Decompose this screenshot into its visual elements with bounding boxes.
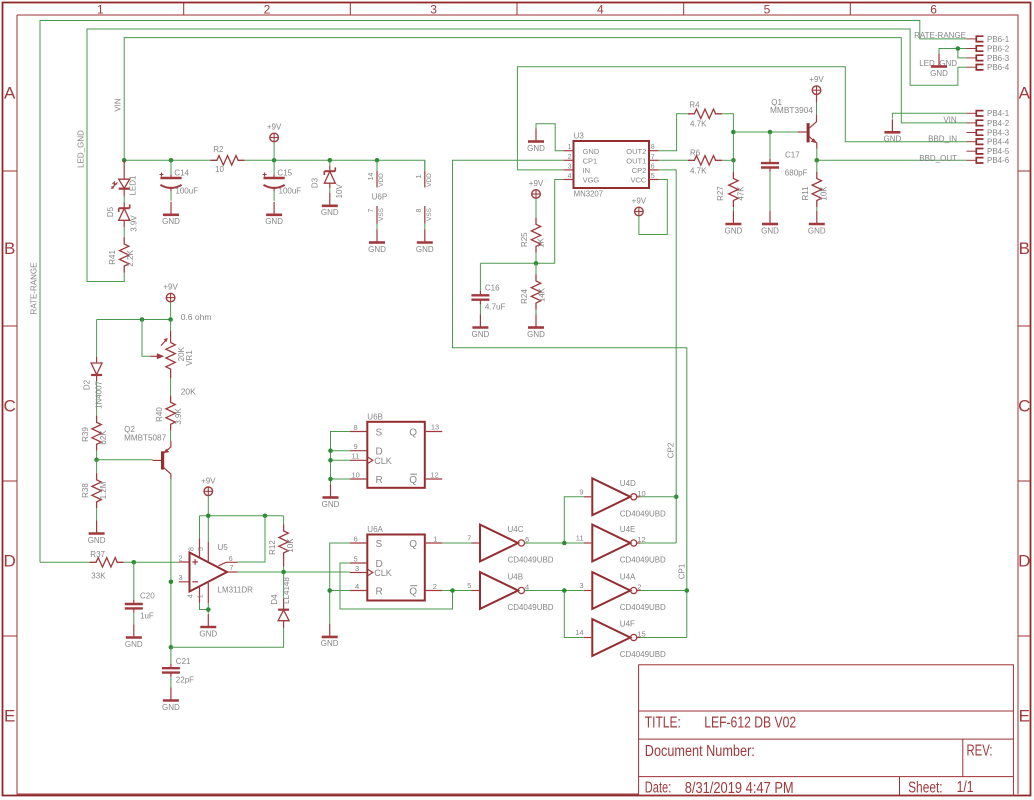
- junction C20 node: [132, 560, 137, 565]
- connector pin PB6-2: [967, 44, 1010, 53]
- svg-text:PB6-2: PB6-2: [987, 44, 1010, 53]
- svg-text:3: 3: [430, 3, 437, 17]
- svg-text:RATE-RANGE: RATE-RANGE: [914, 31, 966, 40]
- svg-text:PB6-1: PB6-1: [987, 35, 1010, 44]
- svg-text:LL4148: LL4148: [282, 577, 291, 604]
- svg-text:LM311DR: LM311DR: [218, 586, 254, 595]
- svg-text:VDD: VDD: [378, 173, 385, 187]
- svg-text:4: 4: [597, 3, 604, 17]
- svg-text:R2: R2: [213, 145, 224, 154]
- svg-text:S: S: [376, 427, 383, 438]
- diode D2 1N4007: [83, 353, 104, 416]
- inverter U4D CD4049UBD: [579, 478, 666, 518]
- zener diode D5 3.9V: [106, 189, 138, 232]
- connector pin PB4-5: [967, 147, 1010, 156]
- svg-text:4.7uF: 4.7uF: [485, 303, 506, 312]
- IC U6A flip-flop: [350, 525, 442, 600]
- svg-text:2: 2: [433, 582, 437, 591]
- svg-text:R24: R24: [520, 289, 529, 304]
- capacitor C14 100uF: [160, 160, 199, 201]
- wire U6B inputs to gnd: [331, 432, 350, 485]
- svg-text:R41: R41: [108, 250, 117, 265]
- ground: [884, 119, 902, 143]
- +9V supply: [809, 75, 824, 94]
- wire BBD_OUT: [817, 159, 967, 161]
- svg-text:Document Number:: Document Number:: [645, 743, 755, 760]
- svg-text:6: 6: [651, 163, 655, 170]
- ground: [725, 211, 743, 235]
- junction pin6 node: [263, 514, 268, 519]
- transistor Q1 MMBT3904: [770, 95, 817, 149]
- wire U4B out to U4A/U4F in: [524, 591, 583, 638]
- svg-text:TITLE:: TITLE:: [645, 715, 681, 732]
- ground: [321, 193, 339, 217]
- svg-text:CD4049UBD: CD4049UBD: [620, 650, 666, 659]
- svg-text:MMBT5087: MMBT5087: [124, 434, 167, 443]
- svg-text:1.2M: 1.2M: [99, 481, 108, 499]
- +9V supply: [267, 123, 282, 142]
- svg-text:REV:: REV:: [967, 742, 993, 759]
- resistor R12 10K: [268, 516, 295, 572]
- svg-text:D4: D4: [270, 594, 279, 605]
- svg-text:C15: C15: [277, 168, 292, 177]
- svg-text:4: 4: [355, 582, 359, 591]
- capacitor C17 680pF: [761, 132, 808, 211]
- svg-text:4: 4: [188, 594, 195, 598]
- wire U4C out to U4D/U4E in: [524, 497, 583, 543]
- svg-text:7: 7: [651, 154, 655, 161]
- IC U3 MN3207: [564, 131, 659, 198]
- wire U3 VCC: [639, 180, 667, 235]
- svg-text:1: 1: [197, 594, 204, 598]
- svg-text:R: R: [376, 475, 383, 486]
- svg-text:D5: D5: [106, 206, 115, 217]
- svg-text:BBD_IN: BBD_IN: [928, 134, 957, 143]
- ground: [527, 129, 545, 153]
- svg-text:VCC: VCC: [630, 176, 646, 185]
- junction U6B: [328, 458, 333, 463]
- svg-text:U4A: U4A: [620, 573, 636, 582]
- resistor R25 1K: [520, 179, 546, 263]
- svg-text:8: 8: [189, 547, 196, 551]
- wire Q1 emitter: [816, 149, 818, 161]
- svg-text:LED_GND: LED_GND: [77, 130, 86, 168]
- svg-text:6: 6: [930, 3, 937, 17]
- svg-text:Date:: Date:: [645, 779, 672, 796]
- junction rail/VIN: [122, 158, 127, 163]
- svg-text:100uF: 100uF: [279, 187, 302, 196]
- svg-text:CP2: CP2: [666, 442, 675, 458]
- svg-text:B: B: [4, 239, 15, 258]
- inverter U4C CD4049UBD: [467, 525, 554, 565]
- wire CP2: [659, 170, 677, 543]
- wire BBD_IN: [517, 67, 966, 170]
- resistor R6 4.7K: [688, 149, 722, 176]
- svg-text:C21: C21: [176, 657, 191, 666]
- svg-text:MN3207: MN3207: [574, 189, 604, 199]
- svg-text:U4C: U4C: [508, 525, 524, 534]
- svg-text:12: 12: [430, 470, 438, 479]
- junction rail/D3: [328, 158, 333, 163]
- svg-text:7: 7: [368, 208, 375, 212]
- svg-text:R38: R38: [81, 483, 90, 498]
- svg-text:Q2: Q2: [124, 425, 135, 434]
- ground: [416, 230, 434, 254]
- connector pin PB6-3: [967, 54, 1010, 63]
- wire VGG divider: [480, 180, 563, 264]
- svg-text:5: 5: [354, 554, 358, 563]
- ground: [808, 211, 826, 235]
- svg-text:R: R: [376, 586, 383, 597]
- svg-text:PB4-5: PB4-5: [987, 147, 1010, 156]
- svg-text:D2: D2: [83, 379, 92, 390]
- svg-text:R6: R6: [690, 149, 701, 158]
- svg-text:62K: 62K: [99, 430, 108, 445]
- junction R6 node: [731, 158, 736, 163]
- svg-text:U4F: U4F: [620, 620, 635, 629]
- svg-text:1K: 1K: [537, 238, 546, 248]
- junction Qbar node: [450, 588, 455, 593]
- svg-text:8: 8: [354, 423, 358, 432]
- svg-text:10V: 10V: [335, 184, 344, 199]
- IC U6P power pins: [368, 160, 433, 229]
- junction VGG: [534, 261, 539, 266]
- svg-text:R39: R39: [81, 427, 90, 442]
- junction CP2/U4D: [674, 495, 679, 500]
- LED LED1: [111, 160, 138, 195]
- inverter U4E CD4049UBD: [576, 525, 666, 565]
- svg-text:6: 6: [229, 556, 233, 563]
- junction CP1/U4A: [685, 588, 690, 593]
- svg-text:1: 1: [568, 144, 572, 151]
- svg-text:20K: 20K: [181, 387, 196, 397]
- svg-text:CD4049UBD: CD4049UBD: [508, 556, 554, 565]
- svg-text:A: A: [1019, 84, 1031, 103]
- svg-text:5: 5: [198, 547, 205, 551]
- svg-text:1: 1: [97, 3, 104, 17]
- wire LM311 V+ / balance: [200, 496, 284, 542]
- svg-text:PB6-3: PB6-3: [987, 54, 1010, 63]
- svg-text:CD4049UBD: CD4049UBD: [620, 556, 666, 565]
- ground: [88, 521, 106, 545]
- svg-text:B: B: [1019, 239, 1030, 258]
- svg-text:R25: R25: [520, 232, 529, 247]
- svg-text:VSS: VSS: [378, 207, 385, 221]
- svg-text:PB4-1: PB4-1: [987, 109, 1010, 118]
- svg-text:VR1: VR1: [185, 350, 194, 366]
- svg-text:5: 5: [467, 581, 471, 590]
- junction inv node: [562, 588, 567, 593]
- svg-text:U4B: U4B: [508, 573, 524, 582]
- svg-text:U6B: U6B: [367, 412, 383, 421]
- wire +9V rail: [124, 160, 425, 171]
- svg-text:2: 2: [568, 154, 572, 161]
- ground: [199, 614, 217, 638]
- svg-text:4: 4: [568, 173, 572, 180]
- wire U6A D loop: [340, 563, 453, 609]
- svg-text:U4D: U4D: [620, 479, 636, 488]
- wire LM311 out to CLK: [238, 571, 350, 573]
- svg-text:S: S: [376, 539, 383, 550]
- svg-text:VIN: VIN: [943, 115, 957, 124]
- svg-text:2.2K: 2.2K: [126, 250, 135, 267]
- ground: [162, 202, 180, 226]
- svg-text:R12: R12: [268, 540, 277, 555]
- svg-text:CD4049UBD: CD4049UBD: [620, 603, 666, 612]
- svg-text:D: D: [4, 552, 16, 571]
- resistor R41 2.2K: [108, 227, 135, 277]
- wire U6A Qbar out: [442, 590, 471, 592]
- svg-text:33K: 33K: [91, 572, 106, 581]
- wire VIN: [124, 38, 966, 161]
- svg-text:C17: C17: [785, 150, 800, 159]
- junction R12/D4 node: [281, 570, 286, 575]
- svg-text:U6P: U6P: [372, 192, 388, 201]
- inverter U4F CD4049UBD: [575, 619, 666, 659]
- resistor R38 1.2M: [81, 460, 108, 521]
- wire +9V to rail: [273, 142, 275, 161]
- svg-text:2: 2: [179, 555, 183, 562]
- svg-text:PB4-4: PB4-4: [987, 138, 1010, 147]
- svg-text:3: 3: [579, 581, 583, 590]
- svg-text:CD4049UBD: CD4049UBD: [620, 509, 666, 518]
- svg-text:3.9K: 3.9K: [174, 408, 183, 425]
- junction pin3 node: [169, 580, 174, 585]
- wire PB4-1 to GND: [892, 113, 966, 118]
- +9V supply: [632, 197, 647, 216]
- svg-text:7: 7: [230, 565, 234, 572]
- svg-text:U5: U5: [218, 543, 229, 552]
- junction U6A R: [327, 588, 332, 593]
- svg-text:9: 9: [354, 442, 358, 451]
- wire OUT2 to R4: [659, 114, 688, 151]
- +9V supply: [201, 476, 216, 495]
- junction rail/C14: [169, 158, 174, 163]
- junction wiper node: [140, 317, 145, 322]
- connector pin PB4-4: [967, 138, 1010, 147]
- capacitor C20 1uF: [125, 562, 155, 624]
- frame row ticks right: [1018, 171, 1031, 636]
- svg-text:9: 9: [579, 488, 583, 497]
- svg-text:U4E: U4E: [620, 525, 636, 534]
- junction gnd node: [206, 607, 211, 612]
- svg-text:PB6-4: PB6-4: [987, 63, 1010, 72]
- wire OUT1 to R6: [659, 159, 688, 161]
- svg-text:VGG: VGG: [583, 176, 600, 185]
- ground: [125, 625, 143, 649]
- svg-text:11: 11: [352, 452, 360, 461]
- wire U6A S-R tie: [330, 543, 350, 624]
- svg-text:E: E: [1019, 707, 1030, 726]
- svg-text:PB4-3: PB4-3: [987, 128, 1010, 137]
- svg-text:CP2: CP2: [632, 166, 647, 175]
- svg-text:4.7K: 4.7K: [690, 120, 707, 129]
- ground: [527, 315, 545, 339]
- svg-text:C: C: [1018, 397, 1030, 416]
- svg-text:PB4-2: PB4-2: [987, 119, 1010, 128]
- svg-text:CLK: CLK: [374, 456, 392, 466]
- svg-text:8/31/2019 4:47 PM: 8/31/2019 4:47 PM: [685, 780, 794, 797]
- trimpot VR1 20K: [142, 320, 194, 379]
- wire bias rail: [97, 302, 171, 353]
- svg-text:A: A: [4, 84, 16, 103]
- connector pin PB4-2: [967, 119, 1010, 128]
- junction rail/C15: [272, 158, 277, 163]
- svg-text:C16: C16: [485, 283, 500, 292]
- svg-text:Q: Q: [409, 586, 417, 597]
- connector pin PB4-6: [967, 156, 1010, 165]
- resistor R40 3.9K: [155, 396, 183, 441]
- junction Q2 base node: [94, 458, 99, 463]
- junction inv node: [562, 541, 567, 546]
- svg-text:11: 11: [576, 534, 584, 543]
- wire RATE-RANGE: [40, 21, 967, 563]
- IC U6B flip-flop: [350, 412, 442, 487]
- svg-text:C20: C20: [140, 592, 155, 601]
- +9V supply: [163, 283, 178, 302]
- svg-text:47K: 47K: [737, 186, 746, 201]
- junction C21 node: [169, 645, 174, 650]
- ground: [761, 211, 779, 235]
- wire U4F out: [641, 637, 687, 639]
- svg-text:1/1: 1/1: [957, 779, 974, 796]
- resistor R37 33K: [40, 550, 179, 580]
- svg-text:Q: Q: [409, 475, 417, 486]
- svg-text:VIN: VIN: [114, 98, 123, 112]
- wire U4A out: [641, 590, 687, 592]
- capacitor C15 100uF: [263, 160, 302, 201]
- junction rail/U6P: [375, 158, 380, 163]
- wire Q2 collector down: [170, 479, 172, 647]
- connector pin PB6-4: [967, 63, 1010, 72]
- svg-text:14: 14: [575, 628, 583, 637]
- svg-text:U6A: U6A: [367, 525, 383, 534]
- svg-text:Q: Q: [409, 539, 417, 550]
- wire U4E out: [641, 542, 677, 544]
- wire pin6 strobe: [238, 516, 266, 562]
- svg-text:OUT2: OUT2: [626, 147, 646, 156]
- resistor R11 10K: [801, 160, 829, 211]
- wire CP1: [453, 160, 687, 637]
- junction VR1 top: [168, 317, 173, 322]
- svg-text:8: 8: [416, 208, 423, 212]
- wire U6A Q out: [442, 542, 471, 544]
- svg-text:RATE-RANGE: RATE-RANGE: [30, 263, 39, 315]
- junction PB6-2: [956, 46, 961, 51]
- wire LED_GND: [87, 29, 967, 282]
- svg-text:7: 7: [467, 534, 471, 543]
- junction C17 node: [768, 130, 773, 135]
- svg-text:680pF: 680pF: [785, 169, 808, 178]
- svg-text:13: 13: [431, 423, 439, 432]
- svg-text:R37: R37: [90, 550, 105, 559]
- svg-text:D3: D3: [310, 177, 319, 188]
- svg-text:C14: C14: [174, 168, 189, 177]
- junction Q1 base node: [731, 130, 736, 135]
- ground: [930, 54, 948, 78]
- ground: [368, 230, 386, 254]
- svg-text:CLK: CLK: [374, 568, 392, 578]
- connector pin PB6-1: [967, 35, 1010, 44]
- op-amp U5 LM311DR: [179, 539, 254, 604]
- svg-text:0.6 ohm: 0.6 ohm: [181, 312, 212, 322]
- resistor R2 10: [211, 145, 245, 174]
- wire U4D out: [641, 496, 677, 498]
- svg-text:CD4049UBD: CD4049UBD: [508, 603, 554, 612]
- connector pin PB4-3: [967, 128, 1010, 137]
- wire R4 to node: [722, 114, 733, 161]
- wire VR1 to R40: [170, 378, 172, 396]
- junction U6B: [328, 448, 333, 453]
- svg-text:1: 1: [433, 534, 437, 543]
- svg-text:VSS: VSS: [426, 207, 433, 221]
- svg-text:IN: IN: [583, 166, 591, 175]
- wire Q1 base wire: [733, 131, 798, 133]
- svg-text:4.7K: 4.7K: [690, 167, 707, 176]
- wire U3 GND pin: [536, 124, 564, 151]
- wire pins 4/1 to gnd: [200, 603, 209, 614]
- title block: [639, 665, 1014, 797]
- svg-text:R40: R40: [155, 407, 164, 422]
- svg-text:R4: R4: [689, 101, 700, 110]
- zener diode D3 10V: [310, 160, 344, 198]
- wire PB6-2 PB6-3 GND: [939, 49, 967, 58]
- ground: [322, 485, 340, 509]
- svg-text:LEF-612 DB V02: LEF-612 DB V02: [704, 715, 796, 732]
- svg-text:100uF: 100uF: [175, 187, 198, 196]
- svg-text:GND: GND: [583, 147, 600, 156]
- svg-text:10: 10: [352, 470, 360, 479]
- resistor R39 62K: [81, 416, 108, 460]
- svg-text:14: 14: [368, 173, 375, 181]
- svg-text:3: 3: [355, 564, 359, 573]
- ground: [162, 688, 180, 712]
- junction V+: [206, 514, 211, 519]
- junction BBD_OUT node: [815, 158, 820, 163]
- svg-text:5: 5: [764, 3, 771, 17]
- transistor Q2 MMBT5087: [97, 425, 171, 479]
- ground: [265, 202, 283, 226]
- resistor R27 47K: [716, 160, 746, 211]
- svg-text:CP1: CP1: [583, 156, 598, 165]
- inverter U4B CD4049UBD: [467, 572, 554, 612]
- +9V supply: [529, 179, 544, 198]
- svg-text:MMBT3904: MMBT3904: [770, 106, 814, 115]
- svg-text:1uF: 1uF: [140, 612, 154, 621]
- svg-text:2: 2: [264, 3, 271, 17]
- ground: [472, 315, 490, 339]
- svg-text:10K: 10K: [820, 186, 829, 201]
- svg-text:3: 3: [179, 575, 183, 582]
- resistor R4 4.7K: [688, 101, 722, 129]
- resistor R24 14K: [520, 263, 547, 314]
- connector pin PB4-1: [967, 109, 1010, 118]
- inverter U4A CD4049UBD: [579, 572, 666, 612]
- svg-text:22pF: 22pF: [176, 675, 194, 684]
- svg-text:3.9V: 3.9V: [129, 215, 138, 232]
- svg-text:PB4-6: PB4-6: [987, 156, 1010, 165]
- svg-text:E: E: [4, 707, 15, 726]
- svg-text:Q: Q: [409, 427, 417, 438]
- junction U6B: [328, 477, 333, 482]
- svg-text:10: 10: [215, 165, 224, 174]
- svg-text:3: 3: [568, 163, 572, 170]
- diode D4 LL4148: [171, 572, 291, 647]
- svg-text:6: 6: [354, 534, 358, 543]
- svg-text:VDD: VDD: [426, 173, 433, 187]
- svg-text:BBD_OUT: BBD_OUT: [919, 154, 957, 163]
- svg-text:LED1: LED1: [129, 175, 138, 196]
